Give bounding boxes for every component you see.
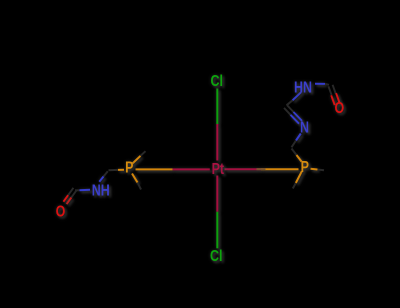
wire Pt-P2 (P half) [261, 168, 299, 170]
wire N1-C carbonyl (N half) [80, 189, 91, 192]
svg-text:P: P [301, 159, 310, 177]
wire Pt-P2 (junction blend) [257, 168, 266, 170]
wire CH2-P2 (P half) [297, 155, 302, 162]
wire C=O right line2 (O half) [331, 95, 335, 105]
wire CH2-P2 (C half) [292, 149, 297, 156]
wire P1-CH3 lower (P half) [132, 174, 138, 183]
wire CH=N2 line1 (N half) [294, 112, 303, 121]
wire P1-CH3 upper (P half) [133, 156, 141, 164]
wire P1-CH3 upper (C half) [141, 151, 146, 156]
wire N2-CH2 (N half) [296, 134, 301, 141]
wire Pt-Cl top (Pt half) [216, 124, 218, 161]
wire C=O right line1 (O half) [336, 93, 340, 103]
wire CH=N2 line2 (C half) [284, 108, 291, 115]
wire CH2-N1 (N half) [99, 177, 103, 182]
svg-text:Pt: Pt [212, 160, 225, 178]
wire P2-CH3 right (C half) [318, 169, 325, 172]
wire P1-CH3 lower (C half) [138, 183, 142, 190]
wire N1-C carbonyl (C half) [75, 189, 80, 191]
svg-text:N: N [300, 119, 309, 137]
wire Pt-Cl bottom (Cl half) [216, 212, 218, 249]
wire P2-CH3 right (P half) [311, 168, 318, 171]
wire P1-CH2 (P half) [118, 169, 124, 171]
wire CH=N2 line2 (N half) [291, 115, 300, 124]
wire C=O left line1 (O half) [67, 198, 72, 205]
wire Pt-P2 (Pt half) [225, 168, 262, 170]
wire Pt-Cl bottom (Pt half) [216, 176, 218, 212]
svg-text:P: P [125, 159, 134, 177]
wire Pt-P1 (Pt half) [173, 168, 210, 170]
wire P2-CH3 lower (C half) [293, 183, 296, 189]
wire N3-C carbonyl right (C half) [325, 83, 329, 86]
wire N3-CH amidine (C half) [287, 100, 293, 105]
wire C=O right line2 (C half) [328, 86, 331, 95]
wire Pt-P1 (P half) [136, 168, 173, 170]
svg-text:Cl: Cl [211, 73, 223, 91]
wire C=O left line2 (O half) [63, 195, 68, 202]
wire P2-CH3 lower (P half) [296, 171, 302, 183]
svg-text:O: O [335, 100, 345, 118]
wire P1-CH2 (C half) [109, 169, 119, 171]
wire CH=N2 line1 (C half) [287, 105, 294, 112]
svg-text:Cl: Cl [210, 248, 222, 266]
svg-text:NH: NH [92, 182, 110, 200]
svg-text:O: O [56, 203, 66, 221]
wire N3-C carbonyl right (N half) [315, 83, 325, 85]
wire CH2-N1 (C half) [104, 171, 108, 176]
wire N2-CH2 (C half) [292, 141, 297, 148]
wire Pt-Cl top (Cl half) [216, 89, 218, 125]
wire C=O right line1 (C half) [333, 85, 336, 94]
svg-text:HN: HN [294, 79, 312, 97]
wire N3-CH amidine (N half) [293, 92, 302, 100]
wire C=O left line2 (C half) [68, 188, 73, 195]
wire C=O left line1 (C half) [71, 190, 76, 197]
